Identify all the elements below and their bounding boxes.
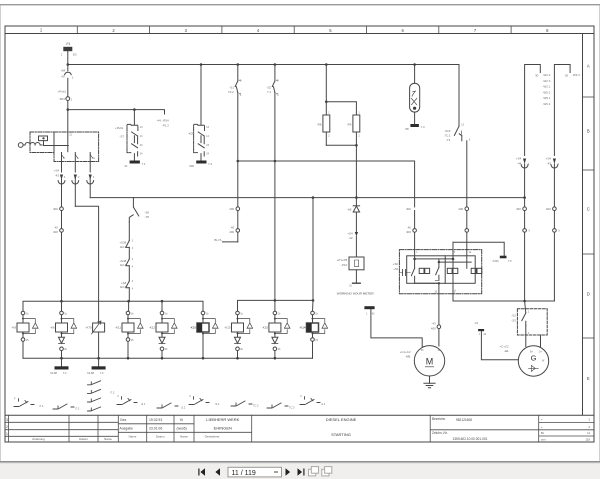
connector circle 400b (x554.4) (553, 229, 557, 301)
cap symbol in module (399, 269, 410, 275)
switch S2 (272, 65, 278, 162)
svg-text:-43: -43 (547, 161, 552, 165)
svg-text:Name: Name (180, 435, 188, 439)
svg-text:/1.4: /1.4 (321, 402, 326, 406)
svg-text:Gezeichnet: Gezeichnet (205, 435, 220, 439)
wire x274.9 down to H4 (274, 161, 276, 300)
relay coil K12 (156, 311, 177, 358)
svg-text:-W5.2: -W5.2 (543, 90, 551, 94)
relay coil K15 (269, 311, 290, 358)
relay coil name labels (12, 325, 306, 329)
svg-text:BL7A: BL7A (214, 238, 221, 242)
svg-text:-G1: -G1 (504, 349, 509, 353)
node H5 x274.9 (274, 357, 277, 360)
svg-text:1: 1 (6, 432, 8, 436)
wire y197.6 right section (313, 197, 525, 199)
svg-text:-P10: -P10 (341, 263, 347, 267)
svg-text:Änderung: Änderung (32, 437, 45, 441)
limit switch chain S38 (126, 222, 129, 248)
svg-text:(wes6): (wes6) (177, 427, 187, 431)
ref contact chain (88, 381, 101, 411)
relay coil K6 (56, 311, 77, 358)
svg-text:EHINGEN: EHINGEN (214, 426, 232, 431)
wire box leg to generator (540, 335, 542, 350)
svg-text:+S4: +S4 (347, 232, 353, 236)
battery post 30 no.1 (525, 65, 541, 156)
svg-text:3: 3 (6, 418, 8, 422)
wire x237.8 down to BL7A (237, 161, 239, 207)
wire fuse to bus (67, 51, 69, 65)
svg-text:T.2: T.2 (63, 371, 67, 375)
svg-text:-R9: -R9 (347, 122, 352, 126)
wire pin1 down (61, 162, 63, 173)
hour meter P10 (349, 257, 364, 282)
ref contact h (300, 397, 320, 405)
module wire a (415, 259, 453, 267)
svg-text:400: 400 (406, 207, 411, 211)
svg-text:19.02.93: 19.02.93 (149, 418, 162, 422)
svg-text:400: 400 (546, 207, 551, 211)
dash-dot bracket S7 (127, 124, 131, 152)
socket symbol (18, 136, 68, 147)
node y197.6 x313 (312, 196, 315, 199)
dash-dot bracket K05 (194, 124, 198, 152)
svg-text:-S15: -S15 (444, 129, 450, 133)
terminal bar X4-88 b (92, 358, 106, 369)
svg-text:-K70: -K70 (85, 325, 91, 329)
terminal bar X300 (500, 256, 507, 259)
svg-text:7C.3: 7C.3 (289, 406, 295, 410)
svg-text:-S7: -S7 (120, 135, 125, 139)
svg-text:30: 30 (565, 73, 569, 77)
terminal bar X4-88 a (55, 358, 69, 369)
svg-text:T.3: T.3 (508, 259, 512, 263)
svg-text:2: 2 (6, 425, 8, 429)
generator label G (531, 354, 537, 363)
svg-text:E3.2: E3.2 (120, 245, 126, 249)
svg-text:-K11: -K11 (115, 325, 121, 329)
node y197.6 x356.4 (355, 196, 358, 199)
component value labels (14, 42, 580, 411)
node H2 x237.8 (237, 160, 240, 163)
connector circle 400 motor wire (437, 325, 441, 346)
bus 31b (H5) (23, 357, 313, 359)
ref contact c (117, 397, 137, 405)
svg-text:-T4: -T4 (446, 138, 451, 142)
bottom reference contact row (14, 381, 320, 411)
svg-text:DIESEL ENGINE: DIESEL ENGINE (326, 417, 357, 422)
svg-text:40: 40 (61, 74, 65, 78)
ref contact b (53, 404, 74, 409)
svg-text:7A.2: 7A.2 (228, 90, 234, 94)
stub H4 to K15 (274, 300, 276, 311)
svg-text:11 / 119: 11 / 119 (232, 470, 256, 477)
svg-text:119: 119 (586, 438, 591, 442)
node H5 x162 (161, 357, 164, 360)
svg-text:-S2: -S2 (511, 313, 516, 317)
relay coil K14 (bold) (307, 311, 328, 358)
svg-text:7.3: 7.3 (208, 162, 212, 166)
stub H3 to K6 (61, 301, 63, 311)
svg-text:D: D (587, 292, 590, 297)
svg-text:-A8: -A8 (347, 207, 352, 211)
svg-text:Ausgabe: Ausgabe (120, 427, 133, 431)
svg-text:Kl: Kl (180, 418, 183, 422)
switch S3 in box (522, 301, 526, 347)
connector arrow pin2 (72, 175, 79, 207)
wire pin into module (414, 211, 416, 259)
node bus x201 (200, 63, 203, 66)
svg-text:WORKING HOUR METER: WORKING HOUR METER (337, 292, 375, 296)
wire pin3 down (89, 162, 91, 173)
svg-text:7C.1: 7C.1 (444, 134, 450, 138)
svg-text:982121608: 982121608 (456, 418, 472, 422)
generator G1 (518, 346, 548, 376)
fuse F4 (64, 47, 72, 50)
ref contact g (267, 403, 288, 408)
toolbar first-page button (198, 468, 220, 475)
stub H3 to K11 (128, 301, 130, 311)
svg-text:Bl.: Bl. (541, 431, 544, 435)
svg-text:von: von (541, 438, 546, 442)
wire pin2 down (74, 162, 76, 173)
svg-text:+C1+C2: +C1+C2 (400, 350, 411, 354)
wire riser A2 (452, 242, 454, 301)
limit switch chain S48 (126, 247, 129, 265)
svg-text:-R8: -R8 (317, 122, 322, 126)
wire module to motor (438, 283, 440, 325)
node bus x237.8 (237, 63, 240, 66)
module wire b (439, 261, 471, 263)
svg-text:400: 400 (458, 207, 463, 211)
node y301.3 x524.6 (523, 300, 526, 303)
viewer bottom toolbar (0, 461, 600, 479)
svg-text:/7.2: /7.2 (75, 407, 80, 411)
svg-text:-W5.1: -W5.1 (543, 96, 551, 100)
svg-text:Name: Name (129, 435, 137, 439)
terminal bar R13 (364, 306, 374, 309)
svg-text:-W6.2: -W6.2 (543, 102, 551, 106)
svg-text:/7.2: /7.2 (39, 404, 44, 408)
wire resistor split (326, 102, 356, 115)
ref contact a (14, 399, 34, 407)
svg-text:-43: -43 (55, 174, 60, 178)
glow plug switch box (dashed) (517, 309, 547, 335)
svg-text:A: A (587, 64, 590, 69)
svg-text:M: M (426, 356, 434, 366)
node H5 x61.5 (60, 357, 63, 360)
svg-text:400: 400 (229, 207, 234, 211)
svg-text:+Pult1: +Pult1 (115, 126, 124, 130)
svg-text:T.2: T.2 (100, 371, 104, 375)
svg-text:-44, -R54: -44, -R54 (157, 119, 169, 123)
module contact 1 (411, 259, 414, 283)
svg-text:+Pult1: +Pult1 (58, 89, 67, 93)
starter motor M1 (414, 346, 444, 376)
stub H3 to K12 (161, 301, 163, 311)
svg-text:-42: -42 (348, 236, 353, 240)
node module b (438, 261, 440, 263)
plug box X (dash-dot) (54, 132, 99, 162)
svg-text:-W2.3: -W2.3 (543, 79, 551, 83)
svg-text:Datum: Datum (156, 435, 165, 439)
right band row ticks (583, 97, 595, 338)
limit switch chain S8 (126, 266, 129, 301)
wire K14 feed (312, 300, 315, 311)
svg-text:E3.6: E3.6 (120, 285, 126, 289)
svg-text:X300: X300 (493, 259, 500, 263)
svg-text:400: 400 (229, 230, 234, 234)
generator diode glyph (529, 365, 539, 371)
node S7 tap (133, 108, 136, 111)
viewer page top edge (0, 4, 600, 5)
node H5 x237.5 (236, 357, 239, 360)
node bus x414.6 (413, 63, 416, 66)
svg-text:/2.3: /2.3 (215, 402, 220, 406)
node H5 x98.6 (97, 357, 100, 360)
svg-text:11: 11 (587, 431, 590, 435)
right band row letters (587, 64, 590, 382)
svg-text:31: 31 (124, 164, 128, 168)
svg-text:X4-88: X4-88 (50, 371, 57, 375)
svg-text:-K15: -K15 (262, 325, 268, 329)
socket box (dash-dot) (30, 132, 54, 153)
connector circle 400 (x237.8) (236, 207, 240, 229)
svg-text:STARTING: STARTING (331, 432, 351, 437)
node H5 x128 (127, 357, 130, 360)
wire bus to resistors (325, 65, 327, 102)
svg-text:-K05: -K05 (188, 132, 194, 136)
connector circle 400b (x466.8) (465, 229, 469, 250)
svg-text:-43: -43 (474, 321, 478, 325)
svg-text:-K9: -K9 (12, 325, 17, 329)
module resistor pair 3 (471, 268, 482, 273)
connector circle 400b (x237.8) (236, 229, 240, 242)
module resistor pair 2 (447, 268, 458, 273)
node H3 x162 (161, 300, 164, 303)
switch S6 (129, 198, 139, 222)
terminal bar lamp (410, 124, 419, 127)
svg-text:C: C (587, 207, 590, 212)
module contact 2 (435, 267, 439, 280)
node module in (413, 258, 416, 261)
svg-text:R: R (63, 157, 65, 160)
switch K05 (double contact) (198, 125, 205, 160)
wire bus right corner down (458, 65, 460, 127)
battery post 30 no.2 (554, 65, 570, 156)
top band column ticks (77, 26, 511, 34)
wire H2 y161 (238, 161, 415, 207)
node H5 x203 (202, 357, 205, 360)
svg-text:Bezeichn.: Bezeichn. (432, 417, 446, 421)
svg-text:+S4: +S4 (54, 168, 60, 172)
svg-text:-A5: -A5 (394, 267, 399, 271)
svg-text:-S6: -S6 (145, 210, 150, 214)
svg-text:1359-602.10.00.001-001: 1359-602.10.00.001-001 (453, 437, 488, 441)
svg-text:7.1: 7.1 (267, 90, 271, 94)
connector arrow pin1 (58, 175, 65, 208)
module wire bottom (415, 282, 439, 284)
svg-text:400: 400 (53, 230, 58, 234)
plug connector 44 (521, 159, 528, 198)
svg-text:Name: Name (104, 437, 112, 441)
resistor R9 (353, 115, 360, 145)
svg-text:X4-88: X4-88 (87, 371, 94, 375)
module sub-box (407, 256, 476, 283)
svg-text:400: 400 (53, 207, 58, 211)
switch S15 (454, 126, 466, 207)
svg-text:400: 400 (516, 207, 521, 211)
svg-text:7.3: 7.3 (421, 125, 425, 129)
svg-text:7C.2: 7C.2 (253, 404, 259, 408)
svg-text:+S4: +S4 (516, 156, 522, 160)
bus y301 right (453, 300, 554, 302)
node y197.6 x524.6 (523, 196, 526, 199)
node A (junction y109.6) (67, 108, 70, 111)
svg-text:+P1+P8: +P1+P8 (337, 258, 348, 262)
svg-text:-B01: -B01 (59, 97, 65, 101)
ref contact e (189, 397, 209, 405)
svg-text:-K10: -K10 (190, 325, 196, 329)
relay coil K9 (17, 311, 38, 358)
svg-text:400: 400 (431, 327, 436, 331)
svg-text:B: B (587, 129, 590, 134)
ground M1 (424, 376, 435, 388)
relay coil K11 (122, 311, 143, 358)
motor label M (426, 356, 434, 366)
node bus x274.9 (274, 63, 277, 66)
motor underline (425, 366, 433, 368)
diode A8 (353, 198, 359, 232)
connector arrow pin3 (87, 175, 94, 198)
ground hour meter (353, 282, 361, 284)
svg-text:E: E (587, 376, 590, 381)
svg-text:-W2.1: -W2.1 (543, 85, 551, 89)
connector circle 400 (x524.6) (523, 198, 527, 229)
svg-text:LIEBHERR WERK: LIEBHERR WERK (206, 417, 239, 422)
svg-text:-P1.2: -P1.2 (162, 123, 169, 127)
wire X300 feed (453, 242, 504, 255)
wire R13 to motor (371, 309, 422, 348)
svg-text:-M1: -M1 (406, 355, 411, 359)
svg-text:7.1: 7.1 (142, 162, 146, 166)
wire x356.4 down (355, 145, 357, 197)
relay coil K13 (232, 311, 253, 358)
connector circle 400 (x61) (60, 207, 64, 229)
wire y109.6 run (68, 110, 165, 114)
plug box internal pins (62, 153, 93, 162)
node riser tap (452, 258, 455, 261)
toolbar page-view icons (309, 467, 332, 476)
node bus/fuse (67, 63, 70, 66)
svg-text:-W3.4: -W3.4 (572, 73, 580, 77)
svg-text:Zeichn.-Nr.: Zeichn.-Nr. (432, 431, 448, 435)
node H4 x274.9 (274, 299, 277, 302)
svg-text:-S1: -S1 (229, 85, 234, 89)
terminal bar K05 (196, 161, 206, 164)
svg-text:Gez.: Gez. (120, 418, 127, 422)
svg-text:G: G (531, 354, 537, 363)
svg-text:+C+C2: +C+C2 (499, 344, 509, 348)
svg-text:-F4: -F4 (65, 42, 70, 46)
svg-text:-S2: -S2 (267, 85, 272, 89)
connector B01 (66, 97, 70, 110)
svg-text:-K14: -K14 (299, 325, 305, 329)
toolbar next buttons (286, 468, 305, 475)
terminal bar S7 (130, 161, 140, 164)
lamp/meter H8 (410, 65, 420, 125)
node module c (438, 282, 440, 284)
svg-text:Datum: Datum (79, 437, 88, 441)
svg-text:/2.2: /2.2 (181, 406, 186, 410)
toolbar page number box (228, 467, 282, 477)
svg-text:E3: E3 (73, 52, 77, 56)
svg-text:400: 400 (189, 164, 194, 168)
svg-text:-44: -44 (517, 161, 522, 165)
svg-text:88: 88 (405, 127, 409, 131)
svg-text:23.01.06: 23.01.06 (149, 427, 162, 431)
module pin stub 50 (466, 250, 468, 269)
node bus x326.3 (325, 63, 328, 66)
connector circle 400b (x61) (60, 229, 64, 302)
svg-text:40: 40 (231, 226, 235, 230)
svg-text:/2.1: /2.1 (141, 402, 146, 406)
bus 15 (H1) (68, 64, 459, 66)
relay module A5 (dash-dot box) (399, 250, 481, 294)
connector circle 400c (x414.6) (413, 229, 417, 233)
svg-text:-S3: -S3 (511, 318, 516, 322)
svg-text:40: 40 (55, 226, 59, 230)
svg-text:-43: -43 (432, 322, 437, 326)
node resistor join (355, 144, 358, 147)
connector circle 400 (x466.8) (465, 207, 469, 229)
svg-text:30: 30 (535, 73, 539, 77)
bus H4 (238, 300, 314, 313)
node resistor split (325, 101, 328, 104)
wire y197.6 run to K-row (90, 198, 313, 301)
svg-text:E3.4: E3.4 (120, 263, 126, 267)
wire pin2 jog to K70 (75, 206, 98, 322)
svg-text:-S4: -S4 (61, 68, 66, 72)
terminal bar 43 (478, 329, 518, 360)
svg-text:+S4: +S4 (546, 156, 552, 160)
node H4 x313 (312, 299, 315, 302)
node H3 x128 (127, 300, 130, 303)
resistor R8 (323, 102, 330, 146)
svg-text:40: 40 (408, 226, 412, 230)
wire stub BL7A (223, 241, 238, 243)
node H2 x274.9 (274, 160, 277, 163)
wire resistor join (326, 144, 356, 146)
wire bus to K05 contact (200, 65, 202, 125)
switch S7 (double contact) (131, 110, 138, 161)
svg-text:-W2.2: -W2.2 (543, 73, 551, 77)
wire S4 into plug box (67, 110, 69, 152)
svg-text:-K13: -K13 (224, 325, 230, 329)
svg-text:400: 400 (406, 230, 411, 234)
svg-text:/7.2: /7.2 (110, 391, 115, 395)
module resistor pair 1 (419, 268, 429, 273)
ref contact d (157, 403, 178, 408)
relay coil K10 (bold) (197, 311, 218, 358)
top band column numbers (40, 28, 549, 33)
svg-text:-T8: -T8 (145, 215, 150, 219)
switch S1 (235, 65, 241, 162)
node H3 x61 (60, 300, 63, 303)
svg-text:-K6: -K6 (50, 325, 55, 329)
relay K70 (92, 321, 105, 358)
connector circle 400 (x554.4) (553, 207, 557, 229)
